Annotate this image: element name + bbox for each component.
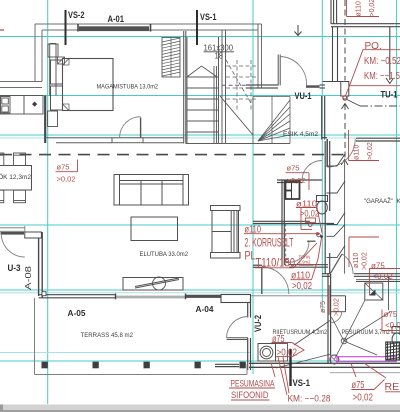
svg-text:"GARAAŽ": "GARAAŽ" [364, 196, 393, 205]
toilet WC [317, 196, 328, 215]
bedroom door arc [120, 117, 141, 138]
svg-text:VU-1: VU-1 [295, 91, 312, 101]
stair dimension [204, 44, 234, 61]
bathroom block south wall [249, 363, 400, 367]
grid horizontal 4 [0, 224, 400, 226]
floor slope lines PESURUUM [332, 300, 391, 359]
blanket fold marks [63, 59, 70, 111]
porch north-east corner wall down [258, 24, 262, 88]
grid vertical B [252, 0, 254, 374]
pesuruum north wall [322, 274, 400, 277]
svg-text:TU-1: TU-1 [381, 90, 398, 100]
fireplace wall ESIK/living [277, 180, 322, 265]
black labels [68, 10, 398, 388]
door ESIK-living arc [302, 161, 322, 181]
svg-text:ø110: ø110 [296, 199, 317, 209]
svg-text:ø75: ø75 [272, 333, 285, 345]
glass door south wall [116, 295, 186, 297]
big sofa [114, 175, 189, 206]
svg-text:>0,02: >0,02 [367, 142, 374, 160]
shower enclosure [331, 296, 346, 312]
kitchen wall below counter [44, 96, 46, 144]
door ESIK-TU1 leaf [326, 139, 328, 167]
grid horizontal 1 [0, 36, 400, 38]
door PESURUUM arc [342, 254, 353, 274]
TU-1 / garage divider edge [389, 27, 391, 80]
svg-text:KM: −0.52: KM: −0.52 [364, 56, 400, 67]
ESIK east wall with door to TU-1 [322, 138, 400, 141]
sofa two-seat [211, 206, 241, 259]
anno dining [57, 163, 76, 184]
up-direction chevron [188, 66, 217, 77]
door VU-1 threshold [306, 85, 320, 88]
door corridor arc [262, 267, 289, 294]
grid horizontal 5b faint [0, 292, 400, 294]
svg-text:A-01: A-01 [108, 14, 125, 24]
south wall kitchen wing with door U-3 [0, 228, 25, 232]
door ESIK-TU1 arc [327, 139, 355, 167]
stairs lower flight [187, 37, 219, 144]
porch south wall with entrance door VU-1 [246, 85, 325, 88]
anno right shaft rotated pair [353, 252, 369, 270]
svg-text:ELUTUBA 33.0m2: ELUTUBA 33.0m2 [140, 251, 189, 258]
chair bottom-right [14, 190, 26, 203]
svg-text:U-3: U-3 [8, 263, 21, 273]
hidden dashed wall under stairs [222, 84, 253, 86]
corridor west wall [281, 180, 283, 265]
door VU-2 living-corridor wall [248, 298, 251, 370]
grid horizontal 6 [0, 360, 397, 362]
TV bench [123, 278, 183, 291]
dash-dot boundary line [360, 105, 400, 107]
drain circle bottom [330, 355, 339, 364]
door VU-1 swing arc [280, 57, 306, 86]
svg-text:>0,02: >0,02 [287, 176, 306, 185]
terrace outline [35, 298, 248, 375]
svg-text:KM: ~−1.5: KM: ~−1.5 [364, 71, 400, 82]
svg-text:A-08: A-08 [23, 266, 33, 290]
svg-text:>0,02: >0,02 [300, 209, 319, 219]
grid vertical A [47, 0, 49, 404]
grid vertical D [396, 0, 398, 362]
garage foundation line [330, 372, 400, 374]
svg-text:>0,02: >0,02 [353, 392, 374, 404]
terrace posts [42, 362, 246, 369]
dining table [0, 166, 32, 191]
kitchen north wall going off left edge [0, 81, 42, 83]
svg-text:MAGAMISTUBA 13,0m2: MAGAMISTUBA 13,0m2 [97, 84, 159, 91]
RIIETUSRUUM door diagonal [294, 321, 330, 346]
garage west wall [325, 141, 330, 274]
stairs winder treads [253, 97, 290, 144]
svg-text:>0,02: >0,02 [369, 0, 376, 17]
svg-text:ø75: ø75 [371, 262, 385, 271]
interior wall bedroom/kitchen [50, 44, 56, 96]
chair top-right [14, 153, 26, 166]
riietusruum north line [251, 295, 328, 297]
anno bottom drain [352, 379, 374, 404]
TU-1 west wall [322, 96, 325, 140]
bathroom middle wall [328, 274, 331, 363]
stairs upper flight dashed [226, 60, 256, 110]
stairs cut diagonal [220, 96, 253, 135]
entrance arrow [295, 25, 302, 36]
anno PESUMASINA [231, 379, 275, 402]
node circle [343, 96, 347, 100]
washing machine [258, 344, 276, 362]
anno WM balloon [272, 343, 305, 357]
towel radiator magenta [337, 357, 396, 362]
staircase enclosure walls [186, 30, 290, 144]
svg-text:ESIK 4,5m2: ESIK 4,5m2 [283, 131, 318, 138]
anno PO KM balloon [364, 41, 400, 82]
door U-3 leaf bar [1, 232, 25, 235]
svg-text:ø110: ø110 [353, 252, 360, 268]
WC room walls [253, 221, 334, 223]
WC door arc [288, 242, 309, 263]
west exterior wall upper [34, 24, 36, 82]
sink diamond [32, 102, 37, 107]
anno fireplace [287, 164, 306, 186]
svg-text:>0,02: >0,02 [277, 347, 298, 359]
svg-text:>0,02: >0,02 [334, 298, 341, 316]
svg-text:TERRASS 45,8 m2: TERRASS 45,8 m2 [81, 332, 134, 339]
leader diagonal lower [276, 354, 331, 368]
porch/TU-1 wall [332, 27, 334, 82]
anno bathroom wall rotated pair [320, 298, 341, 316]
red annotations [356, 0, 377, 17]
svg-text:RENN: RENN [385, 381, 400, 393]
corridor south wall with door [253, 265, 328, 268]
svg-text:ø75: ø75 [384, 310, 398, 319]
grid horizontal faint terrace [0, 352, 250, 354]
anno WC pipe [296, 199, 319, 219]
anno lower right [384, 310, 400, 330]
dashed line with up arrow [344, 104, 346, 158]
bedroom east wall (to stairs) [184, 31, 186, 144]
window W1 in north wall [79, 26, 149, 31]
living room west wall [39, 232, 43, 298]
wall box south-east [221, 295, 251, 303]
break marks on garage wall [327, 154, 346, 258]
grid horizontal 3b faint [0, 137, 400, 139]
toilet PESURUUM [392, 327, 400, 347]
anno shower [371, 262, 393, 282]
section tick VS-1 top [196, 10, 198, 45]
svg-text:VS-1: VS-1 [293, 378, 311, 388]
svg-text:VS-1: VS-1 [200, 12, 217, 22]
svg-text:ø75: ø75 [287, 164, 300, 173]
section tick VS-1 bottom [289, 349, 291, 386]
svg-text:ø110: ø110 [354, 144, 361, 160]
terrace corner marker [42, 292, 46, 296]
svg-text:>0,02: >0,02 [292, 281, 312, 292]
svg-text:<0,02: <0,02 [385, 321, 400, 330]
svg-text:ø75: ø75 [57, 163, 70, 172]
svg-text:18: 18 [215, 52, 224, 61]
svg-text:K: K [397, 198, 400, 205]
door U-3 swing arc [1, 234, 25, 258]
door VU-2 leaf [227, 337, 249, 339]
bedroom door leaf [140, 118, 142, 138]
shower door arc [331, 312, 342, 323]
wall pier at U-3 [25, 232, 42, 238]
pillow 1 [51, 60, 63, 84]
svg-text:SIFOONID: SIFOONID [231, 390, 269, 401]
chair bottom-left [0, 190, 4, 203]
svg-text:A-05: A-05 [68, 308, 86, 318]
column with hatch at kitchen corner [58, 57, 65, 64]
hidden dashed line corridor [285, 224, 287, 266]
bedside table top [48, 44, 58, 57]
fireplace box [286, 182, 300, 200]
svg-text:A-04: A-04 [196, 304, 214, 314]
bench lines bathroom [356, 279, 400, 281]
grid horizontal 3 [0, 134, 400, 136]
svg-text:KM: ~−0.28: KM: ~−0.28 [288, 394, 331, 405]
section line dashed across plan [0, 154, 345, 156]
TV set [135, 277, 179, 290]
nook south edge [215, 363, 239, 365]
chair top-left [0, 153, 4, 166]
grid horizontal 2 [0, 95, 400, 97]
svg-text:ÖÖK 12,3m2: ÖÖK 12,3m2 [0, 173, 31, 181]
svg-text:ø75: ø75 [320, 301, 327, 313]
door VU-1 leaf [277, 55, 279, 86]
party wall stub to top edge [330, 0, 332, 24]
living room south wall [39, 295, 116, 298]
door VU-2 arc [227, 317, 249, 338]
bedside table bottom [48, 111, 58, 127]
coffee table [131, 217, 178, 241]
arrow down on divider [386, 78, 394, 84]
grid horizontal 5 [0, 289, 400, 291]
bedroom south wall with door [45, 138, 184, 143]
north exterior wall (bedroom wing) [0, 24, 262, 88]
kink to dash-dot line [347, 100, 360, 107]
kitchen counter [0, 96, 43, 115]
bed [63, 59, 114, 111]
svg-text:ø110: ø110 [356, 1, 363, 17]
svg-text:VU-2: VU-2 [253, 315, 263, 332]
svg-text:2. KORRUSELT: 2. KORRUSELT [245, 236, 294, 250]
svg-text:<0,02: <0,02 [373, 272, 394, 281]
grid vertical C [321, 0, 323, 312]
window fill south wall [186, 295, 222, 298]
TU-1 north wall [323, 0, 400, 82]
svg-text:>0,02: >0,02 [57, 175, 76, 184]
svg-text:>0,02: >0,02 [362, 252, 369, 270]
anno ESIK right rotated [354, 142, 375, 160]
pillow 2 [51, 86, 63, 110]
svg-text:PO.: PO. [365, 41, 382, 52]
boiler box [365, 283, 383, 300]
anno corridor stack [245, 223, 313, 291]
door corridor leaf [261, 267, 263, 294]
svg-text:VS-2: VS-2 [68, 10, 85, 20]
bottom grey bar [0, 405, 400, 412]
roofline dashed vertical [344, 0, 346, 81]
section tick VS-2 [65, 10, 67, 45]
door PESURUUM leaf [330, 254, 342, 274]
red tick left edge [0, 29, 4, 31]
room labels [0, 84, 400, 340]
wall pier near TU-1 [341, 82, 349, 97]
shower hatched box [386, 342, 400, 360]
wardrobe hatched [162, 38, 180, 78]
